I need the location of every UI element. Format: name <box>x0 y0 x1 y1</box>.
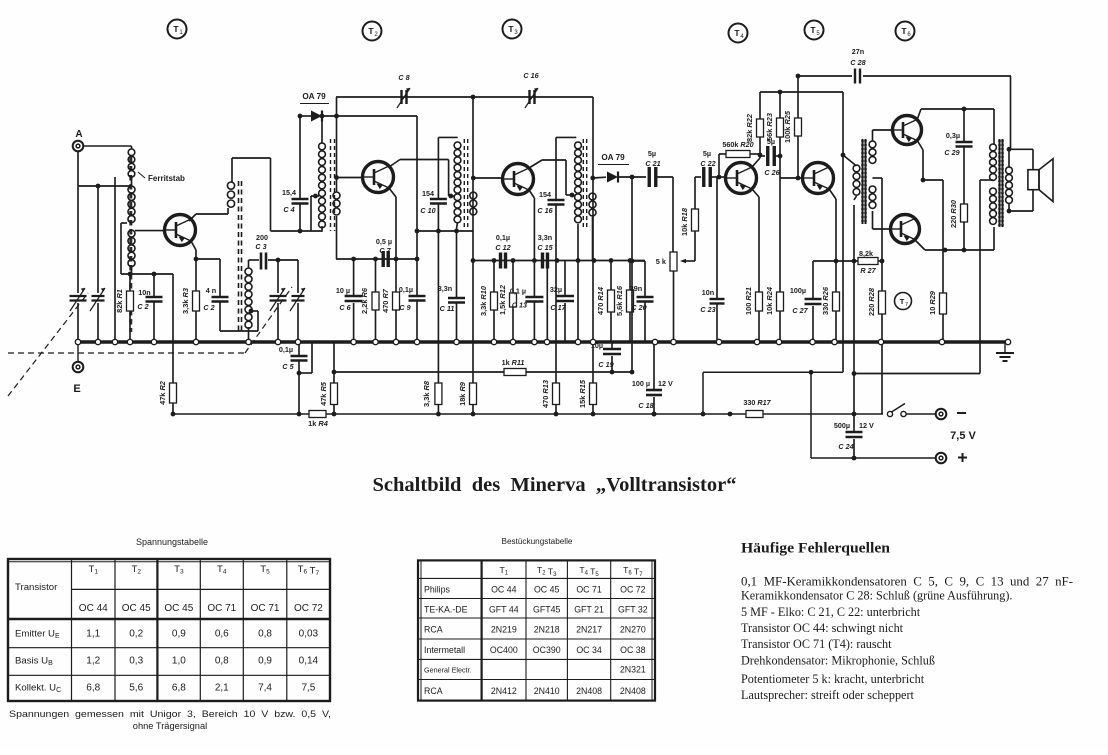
switch <box>887 404 906 417</box>
svg-text:E: E <box>73 383 80 395</box>
svg-text:15,4: 15,4 <box>282 188 296 197</box>
svg-text:1,5k R12: 1,5k R12 <box>498 284 507 315</box>
wire stage3 base return <box>471 258 645 263</box>
IF transformer 2 primary <box>454 142 461 229</box>
trimmer capacitor C8 <box>397 73 410 108</box>
svg-text:C 6: C 6 <box>339 303 351 312</box>
capacitor C29 <box>944 109 972 204</box>
svg-text:154: 154 <box>422 189 434 198</box>
capacitor C27 <box>790 261 836 342</box>
svg-text:GFT 32: GFT 32 <box>618 605 648 615</box>
svg-text:0,9: 0,9 <box>258 656 272 667</box>
svg-text:18k R9: 18k R9 <box>458 381 467 406</box>
resistor R7 <box>381 259 400 342</box>
svg-text:GFT45: GFT45 <box>533 605 560 615</box>
svg-text:Emitter UE: Emitter UE <box>15 628 60 640</box>
resistor R3 <box>181 259 200 342</box>
battery label 7,5V <box>950 430 976 442</box>
svg-text:15k R15: 15k R15 <box>578 379 587 408</box>
svg-text:Bestückungstabelle: Bestückungstabelle <box>501 537 572 546</box>
svg-text:10k R18: 10k R18 <box>680 207 689 236</box>
transistor Q T3 <box>503 164 534 195</box>
svg-text:C 20: C 20 <box>631 303 646 312</box>
capacitor C6 <box>336 259 363 342</box>
driver transformer primary <box>843 155 860 200</box>
svg-text:0,8: 0,8 <box>215 656 229 667</box>
svg-text:OC400: OC400 <box>490 645 518 655</box>
capacitor C24 <box>834 421 874 460</box>
svg-text:2N217: 2N217 <box>576 625 602 635</box>
capacitor C20 <box>630 261 654 342</box>
trimmer capacitor C16 <box>523 71 539 108</box>
svg-text:Potentiometer 5 k: kracht, unt: Potentiometer 5 k: kracht, unterbricht <box>741 672 925 686</box>
svg-text:Lautsprecher: streift oder sch: Lautsprecher: streift oder scheppert <box>741 688 915 702</box>
svg-text:Basis UB: Basis UB <box>15 656 53 668</box>
svg-text:RCA: RCA <box>424 625 443 635</box>
svg-text:0,3: 0,3 <box>129 656 143 667</box>
resistor R25 <box>783 74 802 181</box>
svg-text:0,1µ: 0,1µ <box>279 345 293 354</box>
svg-text:C 28: C 28 <box>850 58 865 67</box>
svg-text:3,3n: 3,3n <box>538 233 552 242</box>
svg-text:Häufige Fehlerquellen: Häufige Fehlerquellen <box>741 541 890 557</box>
wire antenna node <box>78 152 132 293</box>
svg-text:5 k: 5 k <box>656 257 667 266</box>
svg-text:7: 7 <box>905 302 908 308</box>
svg-text:0,2: 0,2 <box>129 628 143 639</box>
svg-text:ohne Trägersignal: ohne Trägersignal <box>133 721 207 731</box>
IF transformer 3 core <box>583 139 586 229</box>
svg-text:3,3n: 3,3n <box>438 284 452 293</box>
svg-text:100 µ: 100 µ <box>632 379 650 388</box>
svg-text:2,2k R6: 2,2k R6 <box>360 287 369 314</box>
transistor Q T4 <box>726 163 757 194</box>
svg-text:GFT 44: GFT 44 <box>489 605 519 615</box>
transistor stage label T3 <box>503 20 522 39</box>
svg-text:12 V: 12 V <box>658 379 673 388</box>
capacitor C18 <box>632 342 673 416</box>
svg-text:82k R22: 82k R22 <box>745 113 754 142</box>
svg-text:C 11: C 11 <box>440 304 455 313</box>
wire C24 column <box>852 205 857 430</box>
capacitor C4 <box>282 116 319 231</box>
svg-text:OC 44: OC 44 <box>79 603 108 614</box>
svg-text:C 19: C 19 <box>598 360 613 369</box>
capacitor C11 <box>438 231 465 342</box>
svg-text:0,1 MF-Keramikkondensatoren: 0,1 MF-Keramikkondensatoren C 5, C 9, C … <box>741 575 1073 589</box>
svg-text:C 5: C 5 <box>282 362 294 371</box>
svg-text:47k R2: 47k R2 <box>158 380 167 405</box>
wire T2 collector <box>389 160 455 199</box>
wire T2 emitter <box>389 188 396 259</box>
IF transformer 1 primary <box>319 116 326 232</box>
svg-text:OC 72: OC 72 <box>620 585 646 595</box>
svg-text:Transistor OC 44: schwingt nic: Transistor OC 44: schwingt nicht <box>741 621 904 635</box>
antenna coupling coil <box>128 146 135 186</box>
transistor Q T7 <box>891 215 920 244</box>
capacitor C9 <box>399 259 426 342</box>
capacitor C19 <box>591 341 621 372</box>
bus junction nodes <box>75 339 1010 344</box>
resistor R26 <box>821 261 840 342</box>
svg-text:4 n: 4 n <box>206 286 216 295</box>
wire aux left <box>114 177 116 342</box>
svg-text:Transistor OC 71 (T4): rauscht: Transistor OC 71 (T4): rauscht <box>741 637 892 651</box>
driver transformer secondary <box>869 130 893 261</box>
transistor stage label T1 <box>168 20 187 39</box>
svg-text:56k R23: 56k R23 <box>765 112 774 141</box>
wire T1 base bias <box>121 272 173 277</box>
svg-text:1,1: 1,1 <box>86 628 100 639</box>
svg-text:OA 79: OA 79 <box>302 92 326 101</box>
svg-text:OC 45: OC 45 <box>164 603 193 614</box>
capacitor C13 <box>510 261 544 343</box>
svg-text:470 R14: 470 R14 <box>596 287 605 315</box>
resistor R11 <box>502 358 526 376</box>
wire T5 base <box>780 156 802 178</box>
resistor R1 <box>115 274 134 342</box>
resistor R12 <box>498 261 517 343</box>
capacitor C7 <box>376 237 392 267</box>
table Bestückungstabelle <box>418 537 655 701</box>
svg-text:100k R25: 100k R25 <box>783 110 792 143</box>
svg-text:OC 34: OC 34 <box>576 645 602 655</box>
wire diode to C10 <box>415 116 473 259</box>
resistor R16 <box>615 261 634 343</box>
ground symbol <box>996 342 1014 361</box>
svg-text:Kollekt. UC: Kollekt. UC <box>15 683 61 695</box>
svg-text:0,03: 0,03 <box>299 628 319 639</box>
svg-text:5,6: 5,6 <box>129 683 143 694</box>
transistor stage label T6 <box>896 22 915 41</box>
IF transformer 2 secondary <box>470 176 503 215</box>
svg-text:C 27: C 27 <box>792 306 808 315</box>
resistor R17 <box>728 398 772 418</box>
svg-text:5µ: 5µ <box>703 149 711 158</box>
svg-text:220 R30: 220 R30 <box>949 199 958 228</box>
svg-text:C 8: C 8 <box>398 73 409 82</box>
capacitor C5 <box>279 342 312 414</box>
resistor R15 <box>578 379 597 414</box>
svg-text:Ferritstab: Ferritstab <box>148 174 185 183</box>
svg-text:0,3µ: 0,3µ <box>946 131 960 140</box>
trimmer capacitor osc <box>290 260 305 342</box>
svg-text:R 27: R 27 <box>860 266 876 275</box>
loudspeaker <box>1009 149 1053 211</box>
svg-text:C 4: C 4 <box>283 205 294 214</box>
svg-text:330 R17: 330 R17 <box>743 398 771 407</box>
oscillator feedback coil <box>227 158 322 233</box>
driver transformer core <box>861 139 867 224</box>
svg-text:Transistor: Transistor <box>15 582 58 593</box>
svg-text:470 R13: 470 R13 <box>541 379 550 408</box>
wire T7 collector <box>915 227 994 252</box>
svg-text:2N321: 2N321 <box>620 665 646 675</box>
svg-text:2N412: 2N412 <box>491 686 517 696</box>
capacitor C15 <box>537 233 553 342</box>
IF transformer 1 core <box>331 139 335 231</box>
svg-text:7,5 V: 7,5 V <box>950 430 976 442</box>
svg-text:0,1µ: 0,1µ <box>496 233 510 242</box>
capacitor C2 10n <box>137 274 162 342</box>
IF transformer 3 secondary <box>589 176 606 261</box>
svg-text:GFT 21: GFT 21 <box>574 605 604 615</box>
svg-text:5µ: 5µ <box>648 149 656 158</box>
table Spannungstabelle <box>8 537 330 701</box>
resistor R13 <box>541 379 560 414</box>
svg-text:2N270: 2N270 <box>620 625 646 635</box>
svg-text:C 17: C 17 <box>550 303 566 312</box>
svg-text:Spannungen gemessen mit Uni: Spannungen gemessen mit Unigor 3, Bereic… <box>9 709 331 719</box>
test point T7 circle <box>895 293 912 310</box>
wire right supply rail <box>760 92 845 372</box>
svg-text:C 29: C 29 <box>944 148 959 157</box>
svg-text:OC 71: OC 71 <box>576 585 602 595</box>
tuning coil L1 <box>121 186 165 274</box>
output transformer primary <box>852 144 997 376</box>
svg-text:39n: 39n <box>630 284 642 293</box>
transistor stage label T2 <box>363 22 382 41</box>
svg-text:82k R1: 82k R1 <box>115 289 124 313</box>
capacitor C16 mid <box>537 137 576 383</box>
capacitor C3 <box>249 233 299 270</box>
svg-text:5,6k R16: 5,6k R16 <box>615 285 624 316</box>
svg-text:27n: 27n <box>852 47 864 56</box>
transistor Q T2 <box>363 162 394 193</box>
resistor R2 <box>158 274 177 414</box>
svg-text:T: T <box>900 297 905 306</box>
svg-text:C 3: C 3 <box>255 242 266 251</box>
tuning gang dashed line <box>8 287 292 396</box>
svg-text:OC390: OC390 <box>533 645 561 655</box>
svg-text:OC 38: OC 38 <box>620 645 646 655</box>
wire T6 collector <box>917 107 994 144</box>
svg-text:7,4: 7,4 <box>258 683 272 694</box>
transistor Q T6 <box>893 116 922 145</box>
svg-text:3,3k R3: 3,3k R3 <box>181 287 190 314</box>
svg-text:Schaltbild des Minerva „Vol: Schaltbild des Minerva „Volltransistor“ <box>373 475 737 496</box>
resistor R28 <box>867 261 886 414</box>
svg-text:6,8: 6,8 <box>172 683 186 694</box>
top rail <box>336 95 593 100</box>
wire T6 emitter <box>917 140 943 182</box>
resistor R5 <box>319 342 338 414</box>
svg-text:10 R29: 10 R29 <box>928 290 937 315</box>
svg-text:Keramikkondensator C 28: Schlu: Keramikkondensator C 28: Schluß (grüne A… <box>741 589 1012 603</box>
svg-text:2,1: 2,1 <box>215 683 229 694</box>
svg-text:C 16: C 16 <box>537 206 553 215</box>
svg-text:10n: 10n <box>138 288 150 297</box>
svg-text:C 23: C 23 <box>700 305 715 314</box>
svg-text:1k R11: 1k R11 <box>502 358 525 367</box>
svg-text:8,2k: 8,2k <box>859 249 873 258</box>
svg-text:12 V: 12 V <box>859 421 874 430</box>
svg-text:2N219: 2N219 <box>491 625 517 635</box>
svg-text:0,6: 0,6 <box>215 628 229 639</box>
main title <box>373 475 737 496</box>
svg-text:A: A <box>75 129 82 140</box>
svg-text:General Electr.: General Electr. <box>424 666 472 675</box>
resistor R18 <box>680 177 699 261</box>
IF transformer 2 core <box>464 139 467 229</box>
svg-text:330 R26: 330 R26 <box>821 286 830 315</box>
svg-text:C 24: C 24 <box>838 442 853 451</box>
oscillator coil <box>245 260 252 342</box>
resistor R20 <box>719 140 760 177</box>
svg-text:0,1µ: 0,1µ <box>399 285 413 294</box>
svg-text:154: 154 <box>539 190 551 199</box>
svg-text:C 21: C 21 <box>645 159 660 168</box>
transistor stage label T5 <box>805 21 824 40</box>
svg-text:0,8: 0,8 <box>258 628 272 639</box>
svg-text:OC 72: OC 72 <box>294 603 323 614</box>
resistor R21 <box>744 189 763 342</box>
svg-text:1,2: 1,2 <box>86 656 100 667</box>
table1 caption <box>9 709 331 731</box>
capacitor C10 <box>420 137 457 383</box>
resistor R22 <box>745 92 764 155</box>
capacitor C26 <box>760 137 782 177</box>
wire AVC line <box>332 370 632 375</box>
variable capacitor ant section <box>70 288 87 342</box>
capacitor C12 <box>495 233 510 269</box>
rail junction dots <box>171 412 657 417</box>
wire osc tap <box>220 309 258 331</box>
svg-text:0,14: 0,14 <box>299 656 319 667</box>
svg-text:OC 71: OC 71 <box>251 603 280 614</box>
svg-text:OC 45: OC 45 <box>534 585 560 595</box>
IF transformer 3 primary <box>575 142 582 342</box>
resistor R8 <box>422 380 442 414</box>
resistor R6 <box>360 259 379 342</box>
resistor R9 <box>458 97 477 414</box>
svg-text:C 10: C 10 <box>420 206 435 215</box>
svg-text:C 2: C 2 <box>203 303 214 312</box>
capacitor C2 4n <box>196 259 229 331</box>
svg-text:C 9: C 9 <box>399 303 410 312</box>
svg-text:1,0: 1,0 <box>172 656 186 667</box>
svg-text:100 R21: 100 R21 <box>744 287 753 315</box>
diode OA79 second <box>598 153 646 183</box>
wire supply column 593 <box>592 97 594 383</box>
svg-text:200: 200 <box>256 233 268 242</box>
transistor stage label T4 <box>729 24 748 43</box>
svg-text:10n: 10n <box>702 288 714 297</box>
diode OA79 first <box>298 92 417 122</box>
terminal plus <box>936 453 967 464</box>
wire AGC column <box>630 177 635 374</box>
wire varcap2 <box>97 186 99 293</box>
wire T5 collector <box>829 189 838 263</box>
svg-text:220 R28: 220 R28 <box>867 287 876 316</box>
terminal A <box>73 129 132 151</box>
wire T3 collector <box>529 160 575 197</box>
resistor R29 <box>928 180 947 342</box>
svg-text:Drehkondensator: Mikrophonie,: Drehkondensator: Mikrophonie, Schluß <box>741 654 935 668</box>
resistor R30 <box>949 199 968 250</box>
resistor R14 <box>596 261 615 343</box>
svg-text:C 16: C 16 <box>523 71 539 80</box>
svg-text:3,3k R8: 3,3k R8 <box>422 380 431 407</box>
negative rail wire <box>173 413 935 415</box>
svg-text:470 R7: 470 R7 <box>381 288 390 313</box>
svg-text:5 MF - Elko: C 21, C 22: unter: 5 MF - Elko: C 21, C 22: unterbricht <box>741 605 921 619</box>
svg-text:Spannungstabelle: Spannungstabelle <box>136 537 208 547</box>
svg-text:2N408: 2N408 <box>576 686 602 696</box>
svg-text:10 µ: 10 µ <box>336 286 350 295</box>
transistor Q T5 <box>803 163 834 194</box>
svg-text:OC 71: OC 71 <box>207 603 236 614</box>
resistor R23 <box>765 90 784 156</box>
svg-text:C 26: C 26 <box>764 168 780 177</box>
resistor R10 <box>479 261 498 343</box>
svg-text:2N410: 2N410 <box>534 686 560 696</box>
svg-text:1k R4: 1k R4 <box>308 419 328 428</box>
capacitor C23 <box>700 177 724 342</box>
svg-text:RCA: RCA <box>424 686 443 696</box>
svg-text:C 15: C 15 <box>537 243 553 252</box>
svg-text:OC 45: OC 45 <box>122 603 151 614</box>
wire T4 collector <box>752 153 762 167</box>
svg-text:32µ: 32µ <box>550 285 562 294</box>
wire T1 collector <box>189 208 228 221</box>
label Ferritstab <box>138 172 185 183</box>
svg-text:6,8: 6,8 <box>86 683 100 694</box>
svg-text:3,3k R10: 3,3k R10 <box>479 285 488 316</box>
svg-text:C 13: C 13 <box>512 301 527 310</box>
svg-text:47k R5: 47k R5 <box>319 381 328 406</box>
terminal minus <box>936 409 966 420</box>
ferrite rod <box>129 157 132 332</box>
capacitor C22 <box>695 149 725 187</box>
svg-text:10k R24: 10k R24 <box>765 287 774 315</box>
capacitor C21 <box>645 149 673 187</box>
output transformer core <box>998 139 1004 227</box>
svg-text:100µ: 100µ <box>790 286 806 295</box>
positive return wire <box>701 370 935 458</box>
svg-text:0,9: 0,9 <box>172 628 186 639</box>
svg-text:2N218: 2N218 <box>534 625 560 635</box>
ground bus <box>75 340 1008 344</box>
resistor R27 <box>836 249 884 275</box>
svg-text:C 18: C 18 <box>638 401 653 410</box>
variable capacitor osc section <box>270 260 287 342</box>
fault list text <box>741 541 1073 703</box>
svg-text:500µ: 500µ <box>834 421 850 430</box>
svg-text:C 22: C 22 <box>700 159 715 168</box>
wire T1 emitter <box>191 241 198 261</box>
capacitor C17 <box>550 261 574 343</box>
svg-text:C 7: C 7 <box>379 246 391 255</box>
svg-text:OA 79: OA 79 <box>601 153 625 162</box>
svg-text:0,5 µ: 0,5 µ <box>376 237 392 246</box>
terminal E <box>73 342 84 395</box>
svg-text:TE-KA.-DE: TE-KA.-DE <box>424 605 468 615</box>
svg-text:C 2: C 2 <box>137 302 148 311</box>
output transformer secondary <box>1006 147 1013 214</box>
wire T3 emitter <box>529 190 534 261</box>
trimmer capacitor ant <box>90 288 105 342</box>
resistor R4 <box>308 411 328 429</box>
svg-text:0,1 µ: 0,1 µ <box>510 287 526 296</box>
capacitor C28 <box>850 47 865 84</box>
transistor Q T1 <box>165 215 196 246</box>
svg-text:Intermetall: Intermetall <box>424 645 465 655</box>
wire C28 rail <box>798 76 1011 149</box>
svg-text:OC 44: OC 44 <box>491 585 517 595</box>
oscillator core <box>239 181 242 333</box>
svg-text:C 12: C 12 <box>495 243 510 252</box>
